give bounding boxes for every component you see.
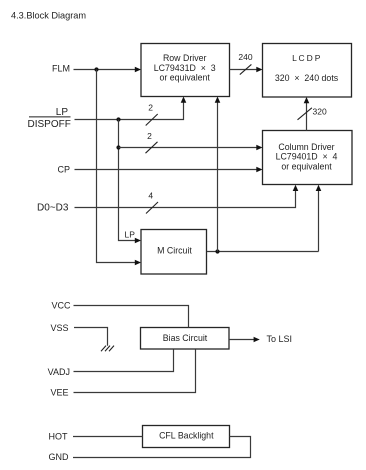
wire M output to Row Driver: [215, 97, 221, 252]
wire HOT to CFL Backlight: [73, 436, 143, 438]
wire VCC to Bias Circuit: [74, 306, 189, 328]
svg-text:Bias Circuit: Bias Circuit: [163, 333, 208, 343]
svg-text:320: 320: [313, 107, 327, 117]
svg-text:4.3.Block Diagram: 4.3.Block Diagram: [11, 11, 86, 21]
block LCDP panel: [263, 44, 352, 98]
svg-text:Row Driver: Row Driver: [163, 53, 207, 63]
svg-text:VSS: VSS: [50, 323, 68, 333]
svg-text:To LSI: To LSI: [267, 334, 293, 344]
svg-text:LC79401D × 4: LC79401D × 4: [276, 152, 338, 162]
svg-text:or equivalent: or equivalent: [281, 161, 332, 171]
svg-text:HOT: HOT: [49, 431, 69, 441]
svg-text:FLM: FLM: [52, 64, 70, 74]
svg-text:VEE: VEE: [50, 388, 68, 398]
wire VEE to Bias Circuit: [74, 349, 196, 392]
ground (chassis) symbol: [101, 346, 114, 352]
svg-text:240: 240: [238, 52, 252, 62]
wire VSS to ground: [74, 328, 108, 346]
wire CP to Column Driver: [75, 167, 263, 172]
wire LP to Row Driver (bus 2): [75, 97, 187, 120]
svg-text:2: 2: [147, 131, 152, 141]
svg-text:M Circuit: M Circuit: [157, 245, 192, 255]
wire Bias Circuit output To LSI: [229, 337, 260, 342]
block U2 Column Driver: [263, 131, 353, 185]
svg-text:or equivalent: or equivalent: [160, 73, 211, 83]
bus slash 2 (LP branch to Column Driver): [146, 131, 158, 153]
junction LP trunk: [116, 117, 120, 121]
svg-text:Column Driver: Column Driver: [278, 142, 334, 152]
bus slash 4 (D0-D3): [146, 190, 158, 213]
bus slash 240: [238, 52, 252, 75]
svg-text:LC79431D × 3: LC79431D × 3: [154, 63, 216, 73]
svg-text:CP: CP: [57, 165, 70, 175]
svg-text:CFL Backlight: CFL Backlight: [159, 430, 214, 440]
wire Row Driver to LCDP (bus 240): [230, 67, 263, 72]
wire Column Driver to LCDP (bus 320): [304, 97, 310, 131]
svg-text:VADJ: VADJ: [48, 367, 70, 377]
svg-text:VCC: VCC: [51, 301, 71, 311]
svg-text:L C D P: L C D P: [292, 53, 321, 63]
svg-text:320 × 240 dots: 320 × 240 dots: [275, 73, 339, 83]
bus slash 2 (LP to Row Driver): [146, 103, 158, 126]
junction FLM trunk: [94, 67, 98, 71]
wire FLM trunk to M Circuit: [97, 70, 142, 266]
svg-text:2: 2: [148, 103, 153, 113]
svg-text:D0~D3: D0~D3: [37, 203, 69, 214]
block Bias Circuit: [141, 328, 230, 350]
wire FLM to Row Driver: [74, 67, 142, 72]
wire LP trunk to M Circuit: [119, 120, 142, 244]
wire LP branch to Column Driver (bus 2): [119, 145, 263, 150]
node DISPOFF label with overline: [28, 117, 71, 130]
wire CFL Backlight return to GND: [73, 437, 251, 458]
wire VADJ to Bias Circuit: [74, 349, 174, 371]
svg-text:DISPOFF: DISPOFF: [28, 119, 71, 130]
wire M Circuit output: [207, 251, 319, 253]
block CFL Backlight: [143, 426, 230, 448]
wire D0-D3 to Column Driver (bus 4): [75, 185, 299, 208]
junction M output: [215, 249, 219, 253]
block U1 Row Driver: [141, 44, 230, 97]
svg-text:LP: LP: [56, 107, 69, 118]
svg-text:LP: LP: [125, 230, 136, 240]
svg-text:4: 4: [148, 190, 153, 200]
wire M output to Column Driver: [316, 185, 322, 252]
svg-text:GND: GND: [49, 452, 70, 462]
block M Circuit: [141, 230, 207, 275]
bus slash 320: [298, 107, 327, 120]
junction LP branch to Column Driver: [116, 145, 120, 149]
